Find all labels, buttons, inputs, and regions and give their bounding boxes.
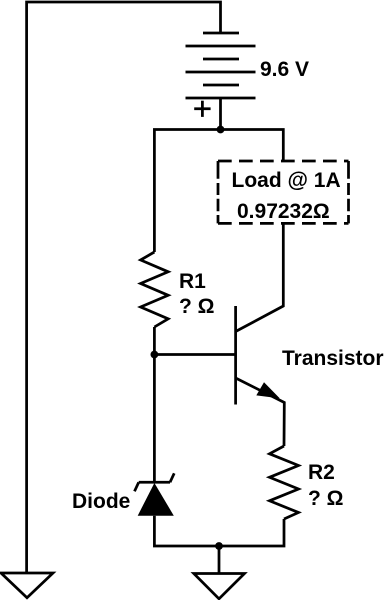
ground left [1,573,53,598]
value label 0.97232 ohms [237,200,330,223]
svg-text:R2: R2 [308,461,335,484]
node junction below battery [217,126,225,134]
value label R1 ohms [179,295,215,318]
ground center [194,574,245,599]
value label 9.6 V [260,58,309,81]
svg-text:Load @ 1A: Load @ 1A [232,169,341,192]
node bottom junction [215,542,223,550]
wire rail below battery down to R1 and load [154,130,283,253]
wire R1 bottom to base node [153,327,156,355]
svg-text:? Ω: ? Ω [308,487,344,510]
svg-text:Diode: Diode [72,490,130,513]
svg-text:? Ω: ? Ω [179,295,215,318]
battery plus polarity mark [194,101,210,117]
wire diode bottom to rail [154,516,219,546]
svg-text:9.6 V: 9.6 V [260,58,309,81]
transistor Q1 [236,223,285,446]
wire left branch to diode [153,355,156,483]
label Transistor [282,347,384,370]
label Load @ 1A [232,169,341,192]
svg-text:Transistor: Transistor [282,347,384,370]
load box Load @ 1A dashed [218,161,349,223]
battery V1 9.6V [186,33,256,98]
svg-text:R1: R1 [179,270,206,293]
wire outer loop: left ground rail up, across top, to battery negative [27,2,221,573]
wire base lead [154,353,235,356]
label Diode [72,490,130,513]
resistor R2 [270,446,299,519]
resistor R1 [141,252,169,327]
wire ground stub center [218,546,221,574]
label R2 [308,461,335,484]
node base junction [151,351,159,359]
label R1 [179,270,206,293]
value label R2 ohms [308,487,344,510]
wire battery positive lead [219,98,222,130]
wire R2 bottom to rail [219,519,284,546]
svg-text:0.97232Ω: 0.97232Ω [237,200,330,223]
diode D1 zener [135,473,175,515]
